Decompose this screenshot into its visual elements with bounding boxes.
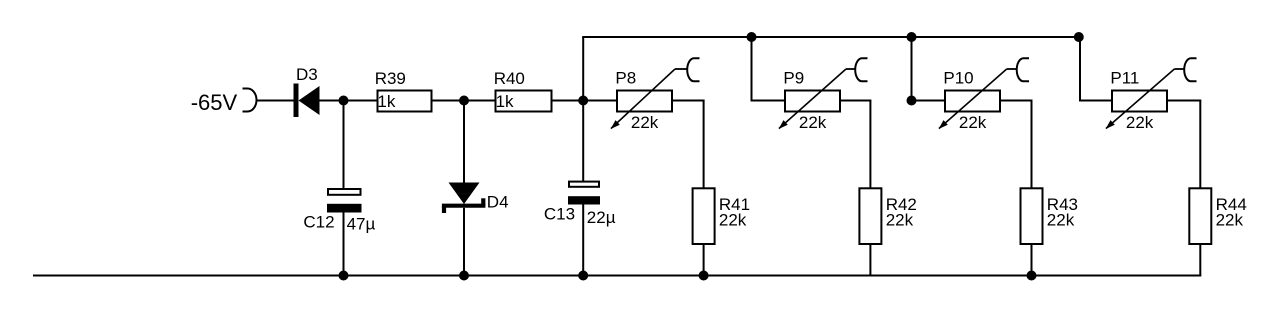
wire bbox=[1031, 244, 1033, 276]
node junction D3/C12 bbox=[339, 96, 349, 106]
resistor R42 bbox=[859, 188, 881, 244]
node junction D4/bottom rail bbox=[459, 271, 469, 281]
node junction top rail/P10 bbox=[907, 32, 917, 42]
svg-text:22k: 22k bbox=[631, 113, 659, 132]
svg-text:R40: R40 bbox=[494, 69, 525, 88]
wire bbox=[869, 101, 871, 190]
svg-text:C13: C13 bbox=[544, 205, 575, 224]
diode D3 bbox=[294, 84, 320, 118]
svg-text:D4: D4 bbox=[487, 193, 509, 212]
svg-text:R39: R39 bbox=[375, 69, 406, 88]
potentiometer P8 bbox=[611, 69, 688, 129]
svg-text:1k: 1k bbox=[377, 92, 395, 111]
wire bbox=[256, 100, 296, 102]
node junction C13/bottom rail bbox=[578, 271, 588, 281]
connector -65V terminal bbox=[243, 89, 257, 112]
wire bbox=[912, 100, 946, 102]
svg-text:1k: 1k bbox=[496, 92, 514, 111]
svg-text:22k: 22k bbox=[959, 113, 987, 132]
wire bbox=[840, 100, 871, 102]
svg-text:47µ: 47µ bbox=[347, 214, 376, 233]
node junction R41/bottom rail bbox=[699, 271, 709, 281]
wire bbox=[911, 37, 913, 102]
wire bbox=[1079, 100, 1112, 102]
svg-text:P8: P8 bbox=[615, 68, 636, 87]
wire bbox=[672, 100, 705, 102]
wire bbox=[343, 101, 345, 190]
resistor R43 bbox=[1021, 188, 1043, 244]
capacitor C13 bbox=[568, 182, 600, 205]
wire bbox=[319, 100, 378, 102]
wire bbox=[869, 244, 871, 276]
svg-text:-65V: -65V bbox=[191, 90, 238, 115]
node junction top rail end/P11 bbox=[1074, 32, 1084, 42]
svg-text:D3: D3 bbox=[296, 65, 318, 84]
connector P9 wiper plug bbox=[855, 58, 867, 81]
node junction P10 feed corner bbox=[907, 96, 917, 106]
wire bottom rail (common return) bbox=[33, 275, 1201, 277]
svg-text:22k: 22k bbox=[1047, 211, 1075, 230]
wire bbox=[1031, 101, 1033, 189]
svg-text:22k: 22k bbox=[719, 211, 747, 230]
connector P8 wiper plug bbox=[687, 58, 699, 81]
resistor R41 bbox=[693, 188, 715, 244]
svg-text:22µ: 22µ bbox=[587, 208, 616, 227]
wire bbox=[463, 101, 465, 184]
wire bbox=[703, 101, 705, 189]
node junction top rail/P9 bbox=[747, 32, 757, 42]
wire bbox=[1199, 244, 1201, 276]
svg-text:P10: P10 bbox=[943, 68, 973, 87]
connector P10 wiper plug bbox=[1017, 58, 1029, 81]
wire bbox=[463, 208, 465, 276]
potentiometer P11 bbox=[1106, 69, 1185, 129]
svg-text:22k: 22k bbox=[886, 211, 914, 230]
zener diode D4 bbox=[442, 183, 486, 214]
wire bbox=[751, 37, 753, 102]
svg-text:22k: 22k bbox=[1216, 211, 1244, 230]
svg-text:22k: 22k bbox=[799, 113, 827, 132]
wire bbox=[582, 37, 584, 182]
connector P11 wiper plug bbox=[1184, 58, 1196, 81]
potentiometer P10 bbox=[939, 69, 1018, 129]
resistor R39 bbox=[378, 91, 432, 112]
potentiometer P9 bbox=[779, 69, 856, 129]
node junction C12/bottom rail bbox=[339, 271, 349, 281]
wire bbox=[1000, 100, 1033, 102]
resistor R40 bbox=[496, 91, 552, 112]
wire bbox=[432, 100, 496, 102]
wire bbox=[1167, 100, 1201, 102]
node junction R43/bottom rail bbox=[1027, 271, 1037, 281]
wire bbox=[1199, 101, 1201, 189]
svg-text:P9: P9 bbox=[783, 68, 804, 87]
wire bbox=[703, 244, 705, 276]
capacitor C12 bbox=[327, 189, 362, 213]
svg-text:22k: 22k bbox=[1126, 113, 1154, 132]
wire bbox=[582, 204, 584, 275]
node junction R39/R40/D4 bbox=[459, 96, 469, 106]
node junction R40/C13/top rail/P8 bbox=[578, 96, 588, 106]
resistor R44 bbox=[1189, 188, 1211, 244]
wire bbox=[1079, 37, 1081, 102]
svg-text:C12: C12 bbox=[303, 212, 334, 231]
svg-text:P11: P11 bbox=[1110, 68, 1139, 87]
wire top rail bbox=[582, 36, 1081, 38]
wire bbox=[552, 100, 618, 102]
wire bbox=[343, 212, 345, 276]
wire bbox=[751, 100, 786, 102]
